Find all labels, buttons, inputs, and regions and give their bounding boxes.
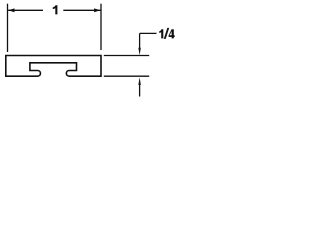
dimension 1: dimension line left segment <box>8 9 43 11</box>
dimension 1/4: leader elbow <box>140 32 157 34</box>
dimension 1/4: bottom extension line <box>104 75 149 77</box>
dimension 1: value label "1" <box>53 5 58 14</box>
dimension 1/4: value label "1/4" <box>159 29 163 38</box>
dimension 1: left extension line <box>7 4 9 52</box>
dimension 1: right extension line <box>100 4 102 50</box>
dimension 1: right arrowhead <box>94 8 100 12</box>
dimension 1/4: lower arrow tail <box>139 84 141 96</box>
dimension 1/4: upper arrowhead (down) <box>138 48 141 56</box>
dimension 1/4: lower arrowhead (up) <box>138 77 141 85</box>
dimension 1: dimension line right segment <box>63 9 100 11</box>
dimension 1/4: upper leader vertical <box>139 33 141 48</box>
dimension 1: left arrowhead <box>8 8 14 12</box>
dimension 1/4: top extension line <box>104 55 149 57</box>
T-track extrusion profile outline <box>6 56 101 77</box>
